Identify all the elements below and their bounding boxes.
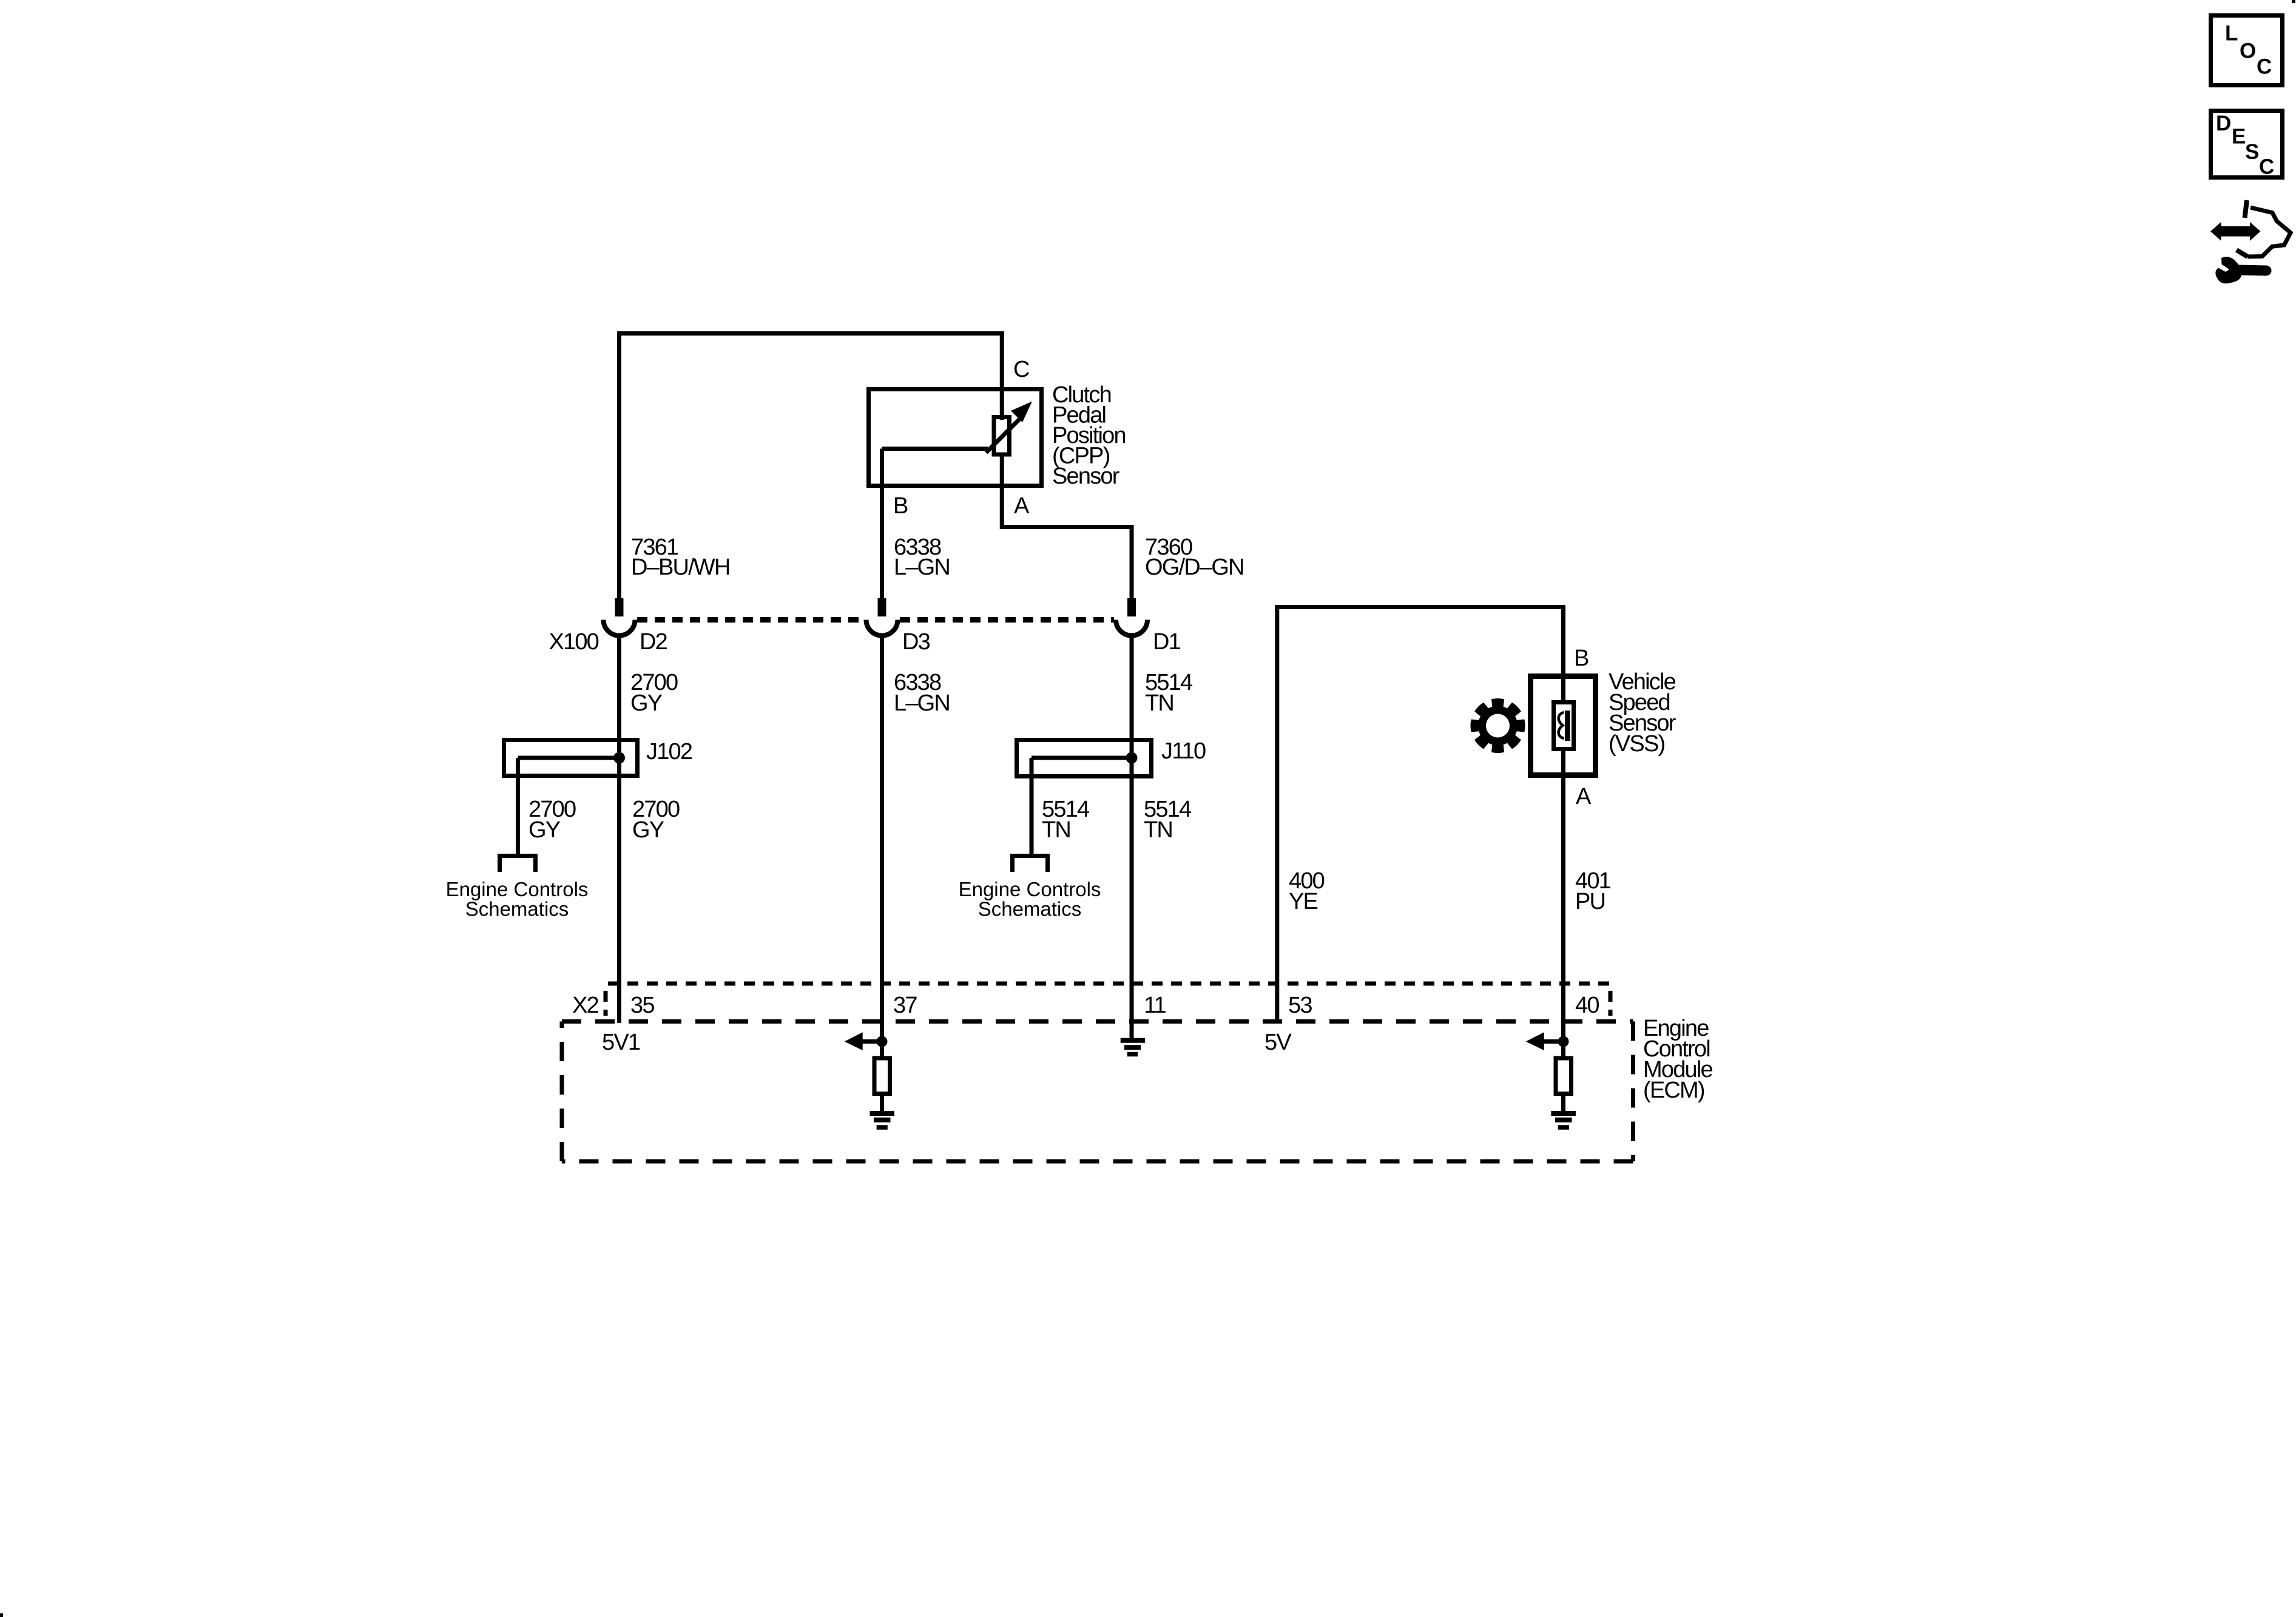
ECM internal signal arrow at pin 37 xyxy=(859,1039,882,1044)
ECM dashed box bottom edge xyxy=(562,1160,1633,1164)
service icon double arrow xyxy=(2210,222,2261,241)
off-page connector bracket below J110 xyxy=(1013,856,1048,873)
svg-text:Schematics: Schematics xyxy=(978,898,1082,920)
wire 6338 L-GN from D3 to ECM pin 37 xyxy=(880,636,884,1039)
ECM chassis ground at pin 11 xyxy=(1121,1038,1145,1043)
svg-text:S: S xyxy=(2245,140,2259,164)
svg-text:C: C xyxy=(1013,357,1029,382)
DESC reference box xyxy=(2211,111,2283,178)
svg-text:YE: YE xyxy=(1289,889,1318,914)
service icon housing top stub xyxy=(2245,200,2247,218)
svg-text:GY: GY xyxy=(630,690,663,716)
ECM dashed box top edge xyxy=(562,1019,1633,1024)
svg-text:Schematics: Schematics xyxy=(465,898,569,920)
svg-text:D–BU/WH: D–BU/WH xyxy=(631,555,730,580)
X100 terminal pin D2 xyxy=(615,598,624,616)
svg-text:11: 11 xyxy=(1144,993,1166,1018)
wire 2700 GY branch from J102 xyxy=(516,758,520,854)
VSS pickup bar xyxy=(1565,711,1570,741)
wire 7361 top horizontal xyxy=(617,331,1004,336)
svg-text:B: B xyxy=(1574,646,1589,671)
CPP wiper arrowhead xyxy=(1011,402,1032,423)
VSS inner element box xyxy=(1554,703,1574,749)
svg-text:(ECM): (ECM) xyxy=(1643,1078,1704,1103)
svg-text:GY: GY xyxy=(528,817,561,843)
ECM internal junction dot at pin 37 xyxy=(877,1036,888,1047)
svg-text:5V1: 5V1 xyxy=(602,1030,640,1055)
svg-text:GY: GY xyxy=(632,817,664,843)
wire B from CPP wiper down xyxy=(880,449,884,600)
wire A from potentiometer bottom xyxy=(1000,454,1004,525)
wire 400 YE vertical to ECM pin 53 xyxy=(1275,605,1279,1023)
svg-text:35: 35 xyxy=(630,993,654,1018)
splice J102 junction dot xyxy=(613,752,625,764)
CPP wiper diagonal shaft xyxy=(986,417,1021,453)
ECM connector X2 dotted line xyxy=(608,982,1609,986)
svg-text:L–GN: L–GN xyxy=(894,555,950,580)
svg-text:(VSS): (VSS) xyxy=(1609,731,1664,757)
ECM dashed box right edge xyxy=(1631,1022,1635,1162)
ECM internal resistor at pin 40 xyxy=(1556,1058,1572,1094)
svg-text:E: E xyxy=(2232,125,2246,149)
svg-text:J110: J110 xyxy=(1161,738,1206,764)
splice J102 box xyxy=(504,740,638,776)
X100 connector socket arc D3 xyxy=(866,620,898,636)
ECM internal signal arrow at pin 40 xyxy=(1540,1039,1564,1044)
wire A horizontal jog xyxy=(1000,525,1134,529)
ECM internal wire to resistor at pin 37 xyxy=(880,1042,884,1059)
svg-text:L–GN: L–GN xyxy=(894,690,950,716)
wire C vertical into CPP sensor xyxy=(1000,331,1004,420)
svg-text:C: C xyxy=(2257,55,2272,79)
ECM connector X2 right end ticks xyxy=(1609,991,1613,1016)
X100 connector dashed line left span xyxy=(637,617,864,623)
LOC reference box xyxy=(2211,16,2283,86)
ECM dashed box left edge xyxy=(560,1022,564,1162)
stray mark top right corner xyxy=(2292,0,2295,3)
svg-text:D: D xyxy=(2216,112,2231,135)
svg-text:X2: X2 xyxy=(572,993,599,1018)
svg-text:J102: J102 xyxy=(646,739,692,765)
X100 terminal pin D3 xyxy=(878,598,886,616)
svg-text:OG/D–GN: OG/D–GN xyxy=(1145,555,1244,580)
stray mark bottom left corner xyxy=(0,1613,3,1617)
service icon connector housing outline xyxy=(2247,208,2291,257)
svg-text:Engine Controls: Engine Controls xyxy=(959,878,1101,900)
VSS pickup coil squiggle xyxy=(1559,712,1564,738)
svg-text:A: A xyxy=(1576,784,1592,809)
ECM internal wire to resistor at pin 40 xyxy=(1561,1042,1565,1059)
ECM internal resistor at pin 37 xyxy=(874,1058,890,1094)
CPP wiper wire horizontal xyxy=(882,447,988,451)
svg-text:PU: PU xyxy=(1575,889,1605,914)
X100 connector socket arc D2 xyxy=(604,620,635,636)
X100 connector dashed line right span xyxy=(900,617,1114,623)
VSS box xyxy=(1531,677,1596,775)
X100 connector socket arc D1 xyxy=(1116,620,1147,636)
CPP potentiometer element xyxy=(994,417,1010,455)
wire 5514 TN branch from J110 xyxy=(1030,758,1034,854)
ECM connector X2 left end ticks xyxy=(604,991,608,1016)
svg-text:X100: X100 xyxy=(549,629,598,655)
svg-text:TN: TN xyxy=(1145,690,1173,716)
svg-text:D1: D1 xyxy=(1153,629,1181,655)
wire 5514 TN from D1 to ECM pin 11 xyxy=(1130,636,1134,1039)
ECM internal wire resistor to ground at pin 40 xyxy=(1561,1096,1565,1112)
svg-text:TN: TN xyxy=(1144,817,1172,843)
splice J110 junction dot xyxy=(1126,752,1138,764)
svg-text:B: B xyxy=(893,493,908,519)
ECM internal ground symbol at pin 40 xyxy=(1551,1111,1576,1116)
splice J110 inner bus line xyxy=(1032,756,1132,760)
ECM internal ground symbol at pin 37 xyxy=(870,1111,895,1116)
wire 7361 left vertical segment xyxy=(617,331,621,599)
gear icon next to VSS xyxy=(1470,698,1525,753)
svg-text:D2: D2 xyxy=(640,629,667,655)
off-page connector bracket below J102 xyxy=(500,856,536,873)
svg-text:Sensor: Sensor xyxy=(1052,464,1120,489)
VSS wire A below element xyxy=(1561,749,1565,1041)
svg-text:Engine Controls: Engine Controls xyxy=(446,878,589,900)
svg-text:O: O xyxy=(2240,39,2256,63)
ECM internal junction dot at pin 40 xyxy=(1558,1036,1569,1047)
svg-text:L: L xyxy=(2225,22,2238,46)
wire 2700 GY from D2 to ECM pin 35 xyxy=(617,636,621,1024)
wire 401 PU / VSS B vertical xyxy=(1561,605,1565,701)
CPP sensor box xyxy=(869,390,1042,486)
ECM internal wire resistor to ground at pin 37 xyxy=(880,1096,884,1112)
splice J110 box xyxy=(1017,740,1152,777)
wire VSS top horizontal xyxy=(1275,605,1565,609)
service icon housing bottom stub xyxy=(2237,250,2247,257)
svg-text:A: A xyxy=(1014,493,1030,519)
svg-text:TN: TN xyxy=(1042,817,1070,843)
wire A right vertical to X100 xyxy=(1130,525,1134,599)
svg-text:5V: 5V xyxy=(1264,1030,1292,1055)
svg-text:D3: D3 xyxy=(902,629,930,655)
svg-text:40: 40 xyxy=(1575,993,1599,1018)
splice J102 inner bus line xyxy=(518,756,620,760)
X100 terminal pin D1 xyxy=(1127,598,1136,616)
service icon wrench xyxy=(2215,257,2241,283)
svg-text:37: 37 xyxy=(893,993,917,1018)
svg-text:C: C xyxy=(2259,155,2274,179)
svg-text:53: 53 xyxy=(1288,993,1312,1018)
